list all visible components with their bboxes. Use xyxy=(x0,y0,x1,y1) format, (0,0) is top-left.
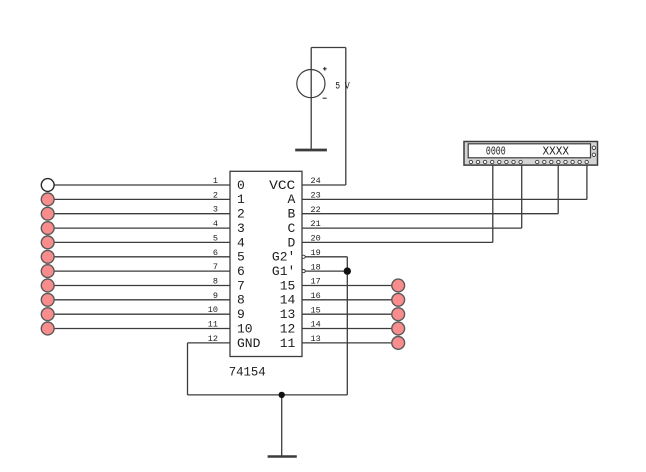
svg-text:G1′: G1′ xyxy=(272,264,295,279)
svg-text:11: 11 xyxy=(208,320,218,330)
svg-text:1: 1 xyxy=(237,192,245,207)
svg-text:12: 12 xyxy=(280,321,296,336)
svg-text:15: 15 xyxy=(280,278,296,293)
svg-text:9: 9 xyxy=(213,291,218,301)
svg-text:5: 5 xyxy=(213,233,218,243)
svg-text:9: 9 xyxy=(237,307,245,322)
svg-text:VCC: VCC xyxy=(269,178,295,193)
svg-text:24: 24 xyxy=(311,176,321,186)
svg-text:5: 5 xyxy=(237,250,245,265)
svg-text:13: 13 xyxy=(311,334,321,344)
svg-text:3: 3 xyxy=(237,221,245,236)
svg-text:14: 14 xyxy=(280,293,296,308)
svg-text:22: 22 xyxy=(311,205,321,215)
svg-text:8: 8 xyxy=(213,276,218,286)
svg-text:6: 6 xyxy=(213,248,218,258)
svg-text:10: 10 xyxy=(208,305,218,315)
svg-text:C: C xyxy=(287,221,295,236)
svg-text:7: 7 xyxy=(213,262,218,272)
svg-text:21: 21 xyxy=(311,219,321,229)
svg-text:6: 6 xyxy=(237,264,245,279)
svg-text:7: 7 xyxy=(237,278,245,293)
svg-text:4: 4 xyxy=(213,219,218,229)
svg-text:0: 0 xyxy=(237,178,245,193)
svg-text:13: 13 xyxy=(280,307,296,322)
svg-text:G2′: G2′ xyxy=(272,250,295,265)
svg-text:GND: GND xyxy=(237,336,261,351)
svg-text:B: B xyxy=(287,207,295,222)
svg-text:2: 2 xyxy=(237,207,245,222)
svg-text:D: D xyxy=(287,235,295,250)
svg-text:10: 10 xyxy=(237,321,253,336)
svg-text:0000: 0000 xyxy=(486,145,506,159)
svg-text:A: A xyxy=(287,192,295,207)
svg-text:74154: 74154 xyxy=(229,365,266,380)
svg-text:11: 11 xyxy=(280,336,296,351)
svg-text:2: 2 xyxy=(213,190,218,200)
svg-text:18: 18 xyxy=(311,262,321,272)
svg-text:23: 23 xyxy=(311,191,321,201)
svg-text:8: 8 xyxy=(237,293,245,308)
svg-text:XXXX: XXXX xyxy=(543,145,570,159)
svg-text:1: 1 xyxy=(213,176,218,186)
svg-text:12: 12 xyxy=(208,334,218,344)
svg-text:5 V: 5 V xyxy=(335,80,350,92)
svg-text:17: 17 xyxy=(311,277,321,287)
svg-text:15: 15 xyxy=(311,305,321,315)
svg-text:19: 19 xyxy=(311,248,321,258)
svg-text:4: 4 xyxy=(237,235,245,250)
svg-text:20: 20 xyxy=(311,234,321,244)
svg-text:14: 14 xyxy=(311,320,321,330)
svg-text:3: 3 xyxy=(213,205,218,215)
svg-text:16: 16 xyxy=(311,291,321,301)
